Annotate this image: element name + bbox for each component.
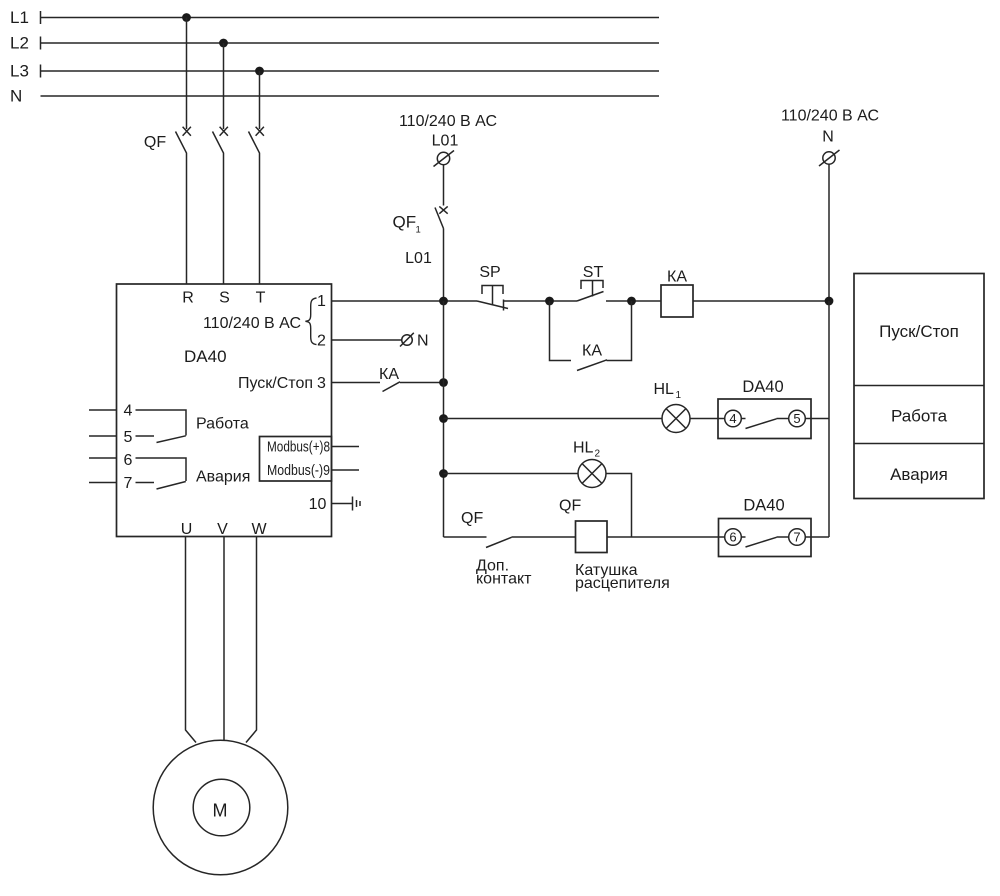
pin 7 xyxy=(89,475,133,492)
motor M inner circle xyxy=(193,779,250,836)
pin 4 xyxy=(89,403,133,420)
Modbus port box xyxy=(260,437,332,482)
wire pin 9 xyxy=(332,469,360,471)
terminal L01 xyxy=(434,151,455,167)
contact terminal 5 xyxy=(789,410,811,427)
svg-text:Работа: Работа xyxy=(891,407,948,426)
motor lead W xyxy=(246,537,257,743)
motor lead U xyxy=(186,537,197,743)
junction holding branch left xyxy=(545,297,554,306)
wire QF aux to trip coil xyxy=(512,536,576,538)
junction L3 tap xyxy=(255,67,264,76)
wire SP to ST xyxy=(504,300,578,302)
wire HL2 branch xyxy=(444,473,579,475)
junction pin3 rail xyxy=(439,378,448,387)
svg-text:3: 3 xyxy=(317,375,326,392)
wire N terminal to rail xyxy=(828,164,830,301)
contact blade 6-7 xyxy=(741,537,788,547)
wire pin 10 xyxy=(332,503,353,505)
svg-text:1: 1 xyxy=(416,225,421,236)
aux contact QF xyxy=(444,537,512,548)
contact blade 4-5 xyxy=(741,419,788,429)
svg-text:2: 2 xyxy=(595,449,601,460)
svg-text:S: S xyxy=(219,290,230,307)
svg-text:Пуск/Стоп: Пуск/Стоп xyxy=(238,375,313,392)
wire pin 8 xyxy=(332,446,360,448)
svg-text:L01: L01 xyxy=(405,250,432,267)
svg-text:110/240 В АС: 110/240 В АС xyxy=(203,315,301,332)
svg-text:DA40: DA40 xyxy=(742,378,783,396)
svg-text:6: 6 xyxy=(729,530,736,545)
svg-text:5: 5 xyxy=(124,429,133,446)
svg-text:DA40: DA40 xyxy=(184,347,227,366)
contact terminal 7 xyxy=(789,529,811,546)
svg-text:1: 1 xyxy=(317,293,326,310)
right N rail xyxy=(828,301,830,537)
wire ST to KA coil xyxy=(606,300,661,302)
contact terminal 4 xyxy=(718,410,741,427)
bus N xyxy=(10,87,659,106)
svg-text:QF: QF xyxy=(559,498,581,515)
svg-text:110/240 В АС: 110/240 В АС xyxy=(781,108,879,125)
breaker QF pole 2 xyxy=(213,43,228,284)
svg-text:U: U xyxy=(181,521,193,538)
junction HL1 branch xyxy=(439,414,448,423)
terminal N control xyxy=(819,150,840,166)
ground pin 10 xyxy=(353,497,361,511)
svg-text:Modbus(+)8: Modbus(+)8 xyxy=(267,439,330,456)
wire KA coil to N rail xyxy=(693,300,829,302)
svg-text:V: V xyxy=(217,521,228,538)
brace pins 1-2 xyxy=(305,298,316,345)
wire contact 7 to N rail xyxy=(811,536,829,538)
svg-text:N: N xyxy=(10,87,22,106)
svg-text:N: N xyxy=(417,333,429,350)
svg-text:R: R xyxy=(182,290,194,307)
junction L1 tap xyxy=(182,13,191,22)
contact terminal 6 xyxy=(719,529,742,546)
svg-text:QF: QF xyxy=(393,213,417,232)
svg-text:ST: ST xyxy=(583,264,604,281)
label HL2 xyxy=(573,440,601,460)
svg-text:L1: L1 xyxy=(10,8,29,27)
wire trip coil to contact 6 xyxy=(607,536,719,538)
holding contact KA branch xyxy=(550,301,632,371)
svg-text:SP: SP xyxy=(479,264,500,281)
svg-text:контакт: контакт xyxy=(476,571,532,588)
svg-text:Авария: Авария xyxy=(890,465,948,484)
svg-text:4: 4 xyxy=(124,403,133,420)
wire HL1 branch xyxy=(444,418,663,420)
wire QF1 to rail xyxy=(443,229,445,302)
wire L01 to QF1 xyxy=(443,165,445,206)
svg-text:КА: КА xyxy=(379,366,399,383)
breaker QF pole 1 xyxy=(176,18,191,285)
svg-text:HL: HL xyxy=(573,440,594,457)
start button ST xyxy=(577,264,604,301)
wire contact 5 to N rail xyxy=(811,418,829,420)
pin 6 xyxy=(89,452,133,469)
svg-text:7: 7 xyxy=(793,530,800,545)
lamp HL2 xyxy=(578,460,606,488)
svg-text:Работа: Работа xyxy=(196,416,249,433)
contact KA pin 3 xyxy=(332,382,444,392)
bus L2 xyxy=(10,34,659,53)
DA40 main unit box xyxy=(117,284,332,537)
junction L2 tap xyxy=(219,39,228,48)
svg-text:L01: L01 xyxy=(432,133,459,150)
label Катушка расцепителя xyxy=(575,562,670,592)
indicator box xyxy=(854,274,984,499)
motor lead V xyxy=(223,537,225,741)
label Доп. контакт xyxy=(476,558,532,588)
bus L1 xyxy=(10,8,659,27)
lamp HL1 xyxy=(662,405,690,433)
svg-text:L2: L2 xyxy=(10,34,29,53)
junction N rail xyxy=(825,297,834,306)
svg-text:L3: L3 xyxy=(10,62,29,81)
pin 5 xyxy=(89,429,133,446)
svg-text:7: 7 xyxy=(124,475,133,492)
svg-text:1: 1 xyxy=(676,390,682,401)
svg-text:6: 6 xyxy=(124,452,133,469)
junction HL2 branch xyxy=(439,469,448,478)
svg-text:2: 2 xyxy=(317,333,326,350)
svg-text:Пуск/Стоп: Пуск/Стоп xyxy=(879,322,959,341)
junction holding branch right xyxy=(627,297,636,306)
svg-text:T: T xyxy=(256,290,266,307)
breaker QF1 xyxy=(393,206,448,235)
wire pin 1 / control rail top xyxy=(332,300,478,302)
relay coil KA xyxy=(661,269,693,318)
indicator divider 2 xyxy=(854,443,984,445)
relay contact 6-7 xyxy=(136,458,187,489)
motor M outer circle xyxy=(153,740,288,875)
bus L3 xyxy=(10,62,659,81)
indicator divider 1 xyxy=(854,385,984,387)
wire HL1 to contact box xyxy=(690,418,718,420)
label HL1 xyxy=(654,381,682,401)
svg-text:М: М xyxy=(213,801,228,821)
svg-text:Авария: Авария xyxy=(196,469,250,486)
svg-text:КА: КА xyxy=(667,269,687,286)
relay contact 4-5 xyxy=(136,410,187,443)
left control rail xyxy=(443,301,445,537)
terminal N pin 2 xyxy=(332,333,429,350)
svg-text:W: W xyxy=(251,521,267,538)
svg-text:QF: QF xyxy=(461,510,483,527)
breaker QF pole 3 xyxy=(249,71,264,284)
junction L01 rail xyxy=(439,297,448,306)
svg-text:расцепителя: расцепителя xyxy=(575,575,670,592)
svg-text:QF: QF xyxy=(144,134,166,151)
svg-text:Modbus(-)9: Modbus(-)9 xyxy=(267,462,330,479)
trip coil box xyxy=(576,521,608,553)
svg-text:N: N xyxy=(822,129,834,146)
svg-text:HL: HL xyxy=(654,381,675,398)
DA40 fault contact box xyxy=(719,519,812,557)
svg-text:КА: КА xyxy=(582,343,602,360)
svg-text:DA40: DA40 xyxy=(743,497,784,515)
svg-text:10: 10 xyxy=(309,496,327,513)
DA40 run contact box xyxy=(718,399,811,439)
svg-text:5: 5 xyxy=(793,411,800,426)
svg-text:110/240 В АС: 110/240 В АС xyxy=(399,113,497,130)
wire HL2 to trip wire xyxy=(606,474,632,538)
stop button SP xyxy=(477,264,508,311)
svg-text:4: 4 xyxy=(729,411,736,426)
